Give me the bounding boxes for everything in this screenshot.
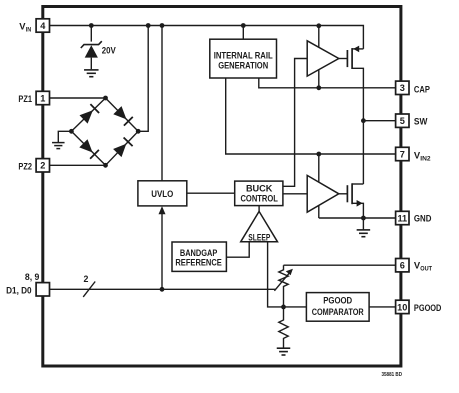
wire bus to UVLO with arrow: [161, 213, 163, 290]
svg-text:4: 4: [40, 21, 46, 31]
junction bridge bottom vertex: [103, 163, 108, 168]
wire U2 lower stub to GND line: [318, 206, 320, 219]
resistor R1 (programmable divider top): [279, 265, 288, 307]
pin 8,9 D1/D0 box: [36, 283, 49, 296]
zener diode 20V cathode bar: [81, 41, 102, 48]
svg-text:D1, D0: D1, D0: [6, 285, 32, 295]
wire VIN to internal rail generation: [242, 26, 244, 40]
svg-text:11: 11: [397, 213, 407, 223]
junction bridge left vertex: [69, 129, 74, 134]
svg-text:PGOOD: PGOOD: [323, 294, 352, 305]
wire BUCK output to U1 input: [283, 59, 307, 187]
wire U1 output to M1 gate: [339, 58, 348, 60]
wire internal rail to CAP line: [259, 78, 396, 88]
wire U1 lower rail stub to CAP: [318, 70, 320, 88]
svg-text:2: 2: [40, 161, 45, 171]
svg-text:20V: 20V: [102, 45, 117, 55]
comparator SLEEP triangle: [241, 211, 278, 241]
svg-text:1: 1: [40, 93, 45, 103]
svg-text:35881 BD: 35881 BD: [382, 372, 403, 378]
block UVLO: [138, 181, 187, 206]
svg-text:CAP: CAP: [414, 84, 430, 94]
junction bus-UVLO arrow: [160, 287, 165, 292]
bridge diode left to bottom (PZ2): [79, 139, 99, 159]
transistor M1 channel bar: [351, 48, 353, 69]
wire SW vertical M1-M2: [362, 121, 364, 184]
bus width slash: [83, 282, 95, 297]
svg-text:REFERENCE: REFERENCE: [175, 257, 222, 268]
wire UVLO to BUCK CONTROL: [187, 192, 235, 194]
transistor M1 drain lead to SW: [352, 68, 363, 120]
svg-text:SLEEP: SLEEP: [248, 232, 270, 242]
svg-text:GENERATION: GENERATION: [218, 59, 268, 70]
ground at bridge left vertex: [52, 142, 65, 144]
wire PGOOD comparator to pin 10: [369, 306, 396, 308]
junction divider tap: [281, 305, 286, 310]
block BANDGAP REFERENCE: [172, 242, 226, 271]
transistor M2 drain lead: [352, 183, 363, 185]
wire VIN to UVLO: [161, 26, 163, 181]
svg-text:2: 2: [84, 274, 89, 284]
wire zener anode to ground: [90, 58, 92, 70]
block BUCK CONTROL: [235, 181, 283, 206]
junction GND node: [361, 216, 366, 221]
svg-text:IN2: IN2: [420, 155, 431, 162]
junction U1-CAP line: [316, 85, 321, 90]
transistor M2 source arrow (N-channel): [357, 200, 363, 207]
IC outline frame: [43, 7, 401, 367]
wire bridge left vertex to ground: [58, 131, 71, 142]
junction bridge right vertex: [136, 129, 141, 134]
wire D1/D0 bus: [50, 288, 276, 290]
svg-text:PGOOD: PGOOD: [414, 303, 442, 313]
svg-text:5: 5: [400, 116, 405, 126]
pin 7 VIN2 box: [396, 147, 409, 160]
junction VIN2-driver U2: [316, 152, 321, 157]
transistor M2 channel bar: [351, 183, 353, 204]
wire VOUT line from divider to pin 6: [284, 264, 396, 266]
bridge diode lower-left to top (PZ1): [80, 104, 100, 124]
pin 3 CAP box: [396, 81, 409, 94]
junction VIN-zener: [89, 23, 94, 28]
svg-text:7: 7: [400, 149, 405, 159]
transistor M1 gate bar: [346, 50, 348, 67]
wire bridge edge top-right: [106, 98, 139, 131]
svg-text:GND: GND: [414, 214, 432, 224]
wire bridge edge left-bottom: [71, 131, 105, 165]
wire bridge edge bottom-right: [106, 131, 139, 165]
svg-text:PZ1: PZ1: [18, 94, 32, 104]
junction VIN-internal-rail: [241, 23, 246, 28]
wire zener stem from VIN rail: [90, 26, 92, 42]
svg-text:SW: SW: [414, 117, 428, 127]
pin 6 VOUT box: [396, 259, 409, 272]
svg-text:COMPARATOR: COMPARATOR: [312, 306, 364, 317]
block INTERNAL RAIL GENERATION: [210, 39, 277, 78]
svg-text:10: 10: [397, 302, 407, 312]
ground at GND node: [357, 229, 371, 231]
wire bridge edge left-top: [71, 98, 105, 131]
junction SW node: [361, 118, 366, 123]
wire BUCK to SLEEP apex: [258, 206, 260, 212]
resistor R2 (divider bottom): [279, 307, 288, 348]
block PGOOD COMPARATOR: [306, 293, 369, 322]
zener diode 20V anode triangle: [85, 45, 98, 57]
pin 10 PGOOD box: [396, 300, 409, 313]
wire U2 output to M2 gate: [339, 193, 348, 195]
wire internal rail to VIN2 line: [226, 78, 396, 154]
driver U2 triangle: [307, 175, 339, 212]
svg-text:3: 3: [400, 83, 405, 93]
svg-text:OUT: OUT: [420, 265, 432, 272]
wire VIN rail from pin 4 to PMOS source: [50, 26, 364, 49]
ground below divider: [277, 347, 291, 349]
arrowhead into UVLO: [159, 206, 166, 214]
ground below zener: [84, 69, 99, 71]
wire U1 supply stub: [318, 26, 320, 48]
svg-text:6: 6: [400, 261, 405, 271]
wire tap to PGOOD comparator: [284, 306, 307, 308]
wire SW to pin 5: [363, 120, 395, 122]
pin 2 PZ2 box: [36, 159, 49, 172]
arrow through R1 (adjustable): [274, 272, 290, 291]
svg-text:8, 9: 8, 9: [25, 272, 40, 282]
wire U2 supply stub: [318, 154, 320, 182]
wire SLEEP left leg to bandgap: [226, 242, 249, 257]
svg-text:IN: IN: [26, 27, 32, 34]
pin 1 PZ1 box: [36, 91, 49, 104]
svg-text:CONTROL: CONTROL: [240, 192, 278, 203]
pin 5 SW box: [396, 114, 409, 127]
wire BUCK output to U2 input: [283, 193, 307, 195]
transistor M1 source arrow (P-channel): [353, 46, 359, 53]
pin 11 GND box: [396, 211, 409, 224]
junction VIN-UVLO: [160, 23, 165, 28]
wire bridge right vertex up to VIN rail: [138, 26, 148, 132]
wire GND stem to ground: [362, 218, 364, 230]
junction VIN-bridge: [146, 23, 151, 28]
wire GND line to pin 11: [319, 217, 396, 219]
bridge diode bottom to right (VIN): [113, 138, 133, 158]
svg-text:PZ2: PZ2: [18, 161, 32, 171]
junction VIN-driver U1: [316, 23, 321, 28]
wire SLEEP right leg to divider tap: [268, 242, 284, 307]
pin 4 VIN box: [36, 19, 49, 32]
junction bridge top vertex: [103, 96, 108, 101]
transistor M2 gate bar: [346, 185, 348, 202]
wire PZ2 to bridge bottom vertex: [50, 164, 106, 166]
wire PZ1 to bridge top vertex: [50, 97, 106, 99]
transistor M1 source lead: [352, 48, 363, 50]
svg-text:UVLO: UVLO: [151, 188, 173, 199]
bridge diode top to right (VIN): [113, 106, 133, 126]
driver U1 triangle: [307, 41, 339, 76]
transistor M2 source lead: [352, 203, 363, 218]
